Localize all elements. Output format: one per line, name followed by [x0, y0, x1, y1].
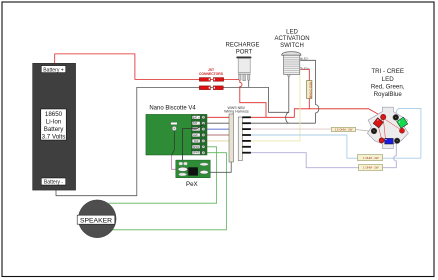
wire red pin1 row to star: [251, 109, 381, 118]
wire green G2 speaker: [112, 153, 226, 230]
recharge port title: [225, 42, 259, 55]
resistor R1: [307, 81, 313, 99]
wire red resistor bottom join: [308, 99, 310, 109]
svg-text:RoyalBlue: RoyalBlue: [374, 91, 403, 98]
JST connector row1: [199, 78, 223, 82]
svg-text:SPKR: SPKR: [193, 152, 200, 155]
svg-text:LED+: LED+: [302, 66, 309, 70]
battery B1: [33, 63, 76, 190]
svg-text:1.5 OHM - 2W: 1.5 OHM - 2W: [335, 128, 353, 132]
wire blue pad3 to strip: [205, 128, 229, 130]
wire red JST to port pin: [223, 78, 240, 80]
svg-text:LED -: LED -: [193, 134, 199, 137]
svg-text:Battery -: Battery -: [44, 180, 64, 186]
wire dark switch bottom tab down with hop arc: [286, 76, 289, 123]
svg-text:LED: LED: [382, 76, 395, 83]
star PCB D1: [367, 107, 408, 148]
wire lightblue label loop to star top-right pad: [383, 108, 421, 158]
NB pad row 3 LED+: [192, 127, 205, 131]
wire maroon pad4 to strip: [205, 134, 229, 136]
harness title: [224, 106, 249, 114]
Nano Biscotte board U1: [146, 114, 207, 155]
svg-text:PORT: PORT: [236, 49, 253, 55]
svg-text:LED-: LED-: [302, 57, 308, 61]
svg-text:SPEAKER: SPEAKER: [80, 217, 112, 224]
LED activation switch title: [274, 30, 309, 49]
harness pin 7: [242, 152, 251, 154]
svg-text:Battery: Battery: [44, 126, 65, 133]
svg-text:PAD: PAD: [194, 140, 199, 143]
svg-text:RECHARGE: RECHARGE: [225, 42, 259, 48]
svg-text:ACTIVATION: ACTIVATION: [274, 36, 309, 42]
wire red battery+ to JST: [55, 54, 200, 80]
wire dark pad2 to strip: [205, 122, 229, 124]
wire magenta board to PeX left pad: [172, 155, 178, 169]
green die: [397, 117, 408, 128]
svg-text:LED: LED: [286, 30, 298, 36]
harness pin 2: [242, 122, 251, 124]
svg-text:RED 3 OHM: RED 3 OHM: [309, 82, 313, 99]
wire dark pad2 across board to PeX: [183, 124, 204, 162]
svg-text:CONNECTORS: CONNECTORS: [199, 72, 224, 76]
blue die: [385, 138, 394, 144]
svg-text:BAT -: BAT -: [193, 122, 199, 125]
wire lavender row7 to label: [251, 153, 359, 168]
star red pad right: [400, 128, 405, 133]
wire red JST gap: [210, 78, 214, 80]
svg-text:SPKR: SPKR: [193, 146, 200, 149]
JST connectors label: [199, 68, 224, 76]
svg-text:Wiring Harness: Wiring Harness: [224, 110, 249, 114]
NB pad row 7 SPKR: [192, 151, 205, 155]
NB pad row 6 SPKR: [192, 145, 205, 149]
star red pad bottom-left: [379, 138, 384, 143]
harness pin 6: [242, 146, 251, 148]
svg-text:TRI - CREE: TRI - CREE: [371, 68, 404, 75]
JST connector row2: [199, 86, 223, 90]
harness left strip: [229, 114, 234, 162]
wire palepink label to star left pad: [356, 130, 372, 132]
harness pin 3: [242, 128, 251, 130]
svg-text:Li-Ion: Li-Ion: [46, 118, 62, 125]
wire label box1 1.5 OHM: [331, 127, 355, 131]
recharge port J1: [236, 57, 251, 81]
svg-text:Battery +: Battery +: [43, 67, 64, 73]
svg-text:PeX: PeX: [186, 181, 198, 188]
svg-text:BAT +: BAT +: [193, 116, 200, 119]
wire dark battery- to JST row2 to port to junction: [56, 87, 289, 195]
NB pad row 1 BAT+: [192, 116, 205, 120]
tri-cree title: [371, 68, 405, 98]
wire dark up to LED- tab with hop arc: [300, 60, 319, 123]
wire label box2 1 OHM: [358, 155, 383, 161]
svg-text:1 OHM - 2W: 1 OHM - 2W: [363, 156, 379, 160]
harness right strip: [238, 117, 242, 161]
wire dark port right pin stub: [248, 80, 250, 87]
NB pad row 2 BAT-: [192, 122, 205, 126]
star black pad bottom-right: [394, 138, 399, 143]
svg-text:1 OHM - 2W: 1 OHM - 2W: [363, 166, 379, 170]
switch S1: [282, 52, 310, 77]
wire yellow pad5 to strip: [205, 140, 229, 142]
wire green G1 speaker: [109, 147, 217, 203]
NB center pad: [171, 122, 178, 155]
harness pin 4: [242, 134, 251, 136]
wire red pad1 to strip: [205, 116, 229, 118]
wire dark row2 harness to switch: [251, 122, 316, 124]
wire lightblue row4 to label: [251, 135, 358, 158]
star black pad top-right: [393, 115, 399, 121]
svg-text:Red, Green,: Red, Green,: [371, 83, 405, 90]
speaker SP1: [77, 200, 116, 238]
wire red recharge port hop down to junction: [240, 80, 266, 117]
wire yellow switch to pin5: [251, 74, 300, 141]
NB pad row 4 LED-: [192, 133, 205, 137]
svg-text:18650: 18650: [45, 111, 63, 118]
svg-text:3.7 Volts: 3.7 Volts: [42, 133, 66, 140]
star red traces: [378, 119, 401, 138]
wire palepink row3 to label: [251, 128, 332, 130]
wire label box3 1 OHM: [359, 165, 383, 171]
harness pin 5: [242, 140, 251, 142]
wire red switch LED+ to resistor: [300, 69, 309, 80]
wire dark strip bottom to PeX: [208, 162, 231, 172]
wire lavender label to star bottom pad with hop: [383, 144, 397, 168]
svg-text:Nano Biscotte V4: Nano Biscotte V4: [149, 105, 196, 111]
PeX board U2: [176, 160, 210, 178]
star red pad top: [381, 114, 386, 119]
star black pad left: [371, 128, 377, 134]
red die: [373, 118, 383, 128]
NB pad row 5 PAD: [192, 139, 205, 143]
svg-text:SWITCH: SWITCH: [280, 43, 304, 49]
harness pin 1: [242, 116, 251, 118]
